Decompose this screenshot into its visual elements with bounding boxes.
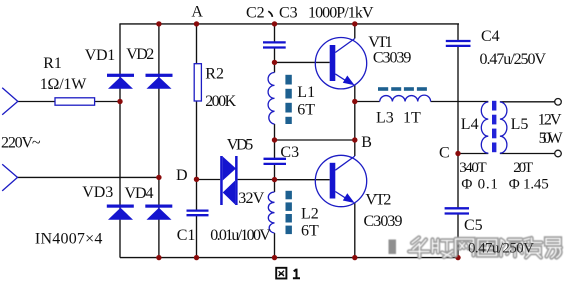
svg-text:12V: 12V [538, 112, 562, 129]
wire L5 bottom to output terminal [500, 153, 555, 155]
svg-text:VD3: VD3 [82, 184, 113, 201]
wire C2 bottom through L1 top node [274, 48, 276, 73]
wire second bridge column (VD2/VD4 branch) [158, 24, 160, 258]
wire VT1 emitter / node B / VT2 collector column [354, 85, 356, 156]
svg-text:C5: C5 [464, 217, 483, 234]
wire node D to VD5 [197, 179, 221, 181]
wire bottom rail [120, 257, 458, 259]
inductor L2 winding [268, 192, 274, 233]
node C5 rail [455, 255, 460, 260]
svg-text:50W: 50W [539, 130, 564, 147]
capacitor C5 [445, 208, 469, 213]
node C2/L1/VT1-base [272, 60, 277, 65]
transformer primary winding L4 [481, 102, 488, 153]
svg-text:VD4: VD4 [125, 185, 154, 202]
inductor L1 winding [268, 73, 274, 125]
svg-text:200K: 200K [205, 93, 236, 110]
svg-text:0.47u/250V: 0.47u/250V [480, 51, 547, 68]
wire R2 to node D to C1 [196, 102, 198, 211]
svg-text:R2: R2 [205, 66, 224, 83]
svg-text:C3: C3 [280, 144, 299, 161]
svg-text:220V~: 220V~ [1, 135, 41, 152]
wire VT1 base [275, 61, 330, 63]
svg-text:VD2: VD2 [126, 46, 154, 63]
wire C5 bottom to rail [457, 214, 459, 258]
transformer core [492, 101, 496, 152]
wire VT1 collector stub to top rail [354, 24, 356, 39]
svg-text:L1: L1 [297, 84, 315, 101]
node top rail / VD2 [156, 21, 161, 26]
svg-text:Φ 1.45: Φ 1.45 [509, 177, 549, 193]
node VT2 emitter rail [352, 255, 357, 260]
svg-text:L3: L3 [376, 109, 394, 126]
wire emitter node to L3 [355, 101, 380, 103]
wire node B horizontal [275, 139, 355, 141]
transistor VT1 [315, 38, 366, 89]
svg-text:VT1: VT1 [368, 34, 393, 51]
inductor L1 core [285, 75, 291, 124]
wire right column C4 top corner [457, 24, 459, 41]
svg-text:IN4007×4: IN4007×4 [35, 230, 103, 247]
svg-text:1000P/1kV: 1000P/1kV [308, 4, 374, 21]
wire L5 top to output terminal [500, 101, 555, 103]
svg-text:C: C [439, 144, 450, 161]
svg-text:1T: 1T [403, 109, 421, 126]
svg-text:VD1: VD1 [85, 47, 116, 64]
wire top rail A-net [119, 23, 459, 25]
AC input terminal 1 [2, 88, 18, 115]
svg-text:C3039: C3039 [373, 49, 412, 66]
node VT1 emitter / L3 [352, 99, 357, 104]
svg-text:1Ω/1W: 1Ω/1W [40, 76, 87, 93]
wire L1 bottom to C3 top [274, 124, 276, 159]
wire VT2 base [275, 179, 330, 181]
svg-text:D: D [176, 167, 188, 184]
node AC1 junction [117, 99, 122, 104]
wire R2 column upper [196, 24, 198, 64]
node top rail / R2 [194, 21, 199, 26]
node C3/L2/VT2-base/VD5 [272, 177, 277, 182]
wire C1 bottom to rail [196, 215, 198, 257]
svg-text:6T: 6T [297, 102, 315, 119]
svg-text:C1: C1 [177, 227, 196, 244]
node D junction [194, 177, 199, 182]
resistor R1 [55, 98, 95, 105]
diode VD2 [146, 74, 173, 89]
capacitor C2 [263, 42, 286, 47]
wire VT2 emitter to bottom rail [354, 203, 356, 258]
svg-text:0.01u/100V: 0.01u/100V [210, 227, 271, 244]
svg-text:C3: C3 [279, 4, 298, 21]
inductor L2 core [286, 191, 292, 234]
svg-text:32V: 32V [238, 190, 264, 207]
figure caption 图 1 [276, 268, 300, 279]
wire mid column top to C2 [274, 24, 276, 42]
diode VD3 [107, 205, 134, 220]
wire L3 to transformer primary top [431, 101, 489, 103]
inductor L3 core [378, 87, 427, 91]
svg-text:Φ 0.1: Φ 0.1 [461, 177, 498, 193]
AC input terminal 2 [2, 164, 17, 191]
node top rail / C2 [272, 21, 277, 26]
node VD4 rail [156, 255, 161, 260]
capacitor C3 [264, 159, 287, 164]
svg-text:VT2: VT2 [365, 191, 391, 208]
node AC2 junction [156, 175, 161, 180]
wire left bridge column (VD1/VD3 branch) [119, 24, 121, 258]
svg-text:20T: 20T [513, 160, 533, 176]
svg-text:C3039: C3039 [364, 213, 403, 230]
wire AC input 1 to R1 [18, 101, 55, 103]
svg-text:C4: C4 [481, 28, 500, 45]
wire C4 bottom through node C to C5 [457, 46, 459, 208]
transformer secondary winding L5 [500, 102, 507, 153]
transistor VT2 [315, 155, 366, 206]
output terminal bottom [555, 150, 562, 157]
wire L2 bottom to rail [274, 233, 276, 258]
wire node C to L4 bottom [458, 153, 488, 155]
inductor L3 winding [380, 95, 431, 101]
node top rail / VT1 collector [352, 21, 357, 26]
node B junction [352, 137, 357, 142]
diode VD4 [145, 205, 172, 220]
wire C3 bottom to VD5/base node [274, 164, 276, 192]
svg-text:R1: R1 [43, 55, 62, 72]
svg-text:L4: L4 [461, 116, 479, 133]
node L2 bottom rail [272, 255, 277, 260]
svg-text:6T: 6T [301, 222, 319, 239]
svg-text:VD5: VD5 [227, 137, 254, 154]
wire AC input 2 to bridge node [18, 176, 159, 178]
capacitor C1 [187, 211, 209, 216]
node C1 rail [194, 255, 199, 260]
capacitor C4 [446, 41, 471, 46]
svg-text:0.47u/250V: 0.47u/250V [468, 241, 534, 257]
svg-text:L5: L5 [511, 116, 529, 133]
svg-text:A: A [191, 3, 203, 20]
svg-text:L2: L2 [301, 205, 319, 222]
wire R1 to bridge node [95, 101, 120, 103]
svg-text:B: B [361, 134, 372, 151]
node C junction [455, 151, 460, 156]
node L1/C3/B-wire [272, 137, 277, 142]
resistor R2 [194, 64, 201, 101]
svg-text:340T: 340T [459, 160, 487, 176]
svg-text:C2: C2 [246, 4, 265, 21]
diode VD1 [107, 74, 134, 89]
watermark 华联网国际贸易 [389, 238, 562, 258]
diac VD5 [220, 156, 237, 205]
output terminal top [555, 99, 562, 106]
wire VD5 to VT2 base node [238, 179, 275, 181]
